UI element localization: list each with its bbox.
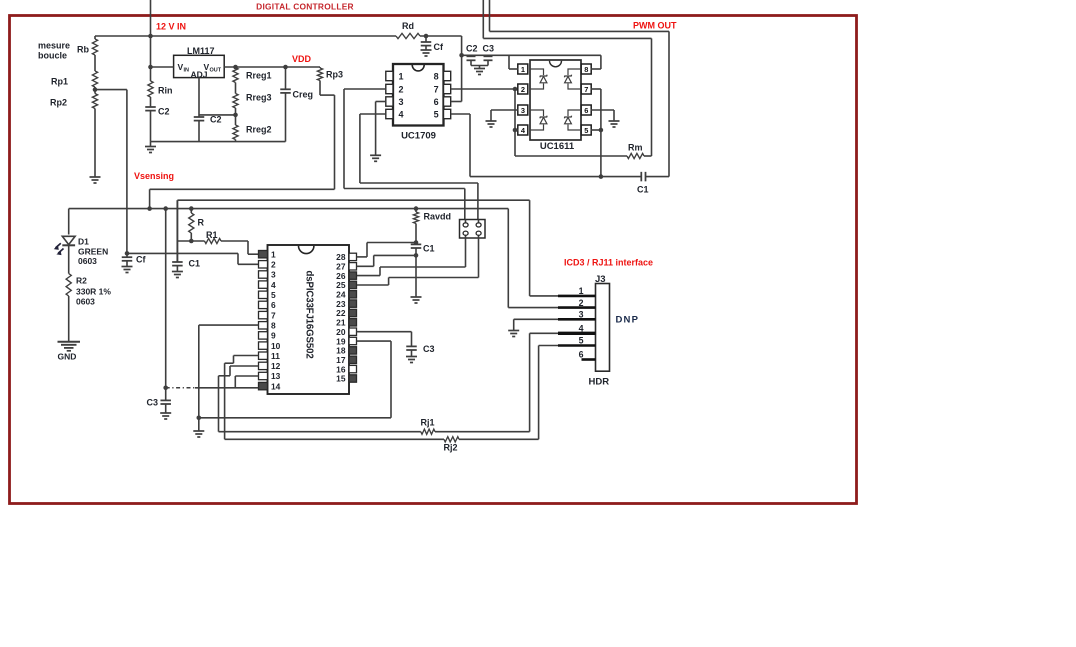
diode UC1611 lower-left bbox=[530, 110, 547, 130]
svg-text:R2: R2 bbox=[76, 276, 87, 286]
regulator U-LM117 bbox=[174, 46, 225, 80]
wire 12V rail left bbox=[95, 35, 396, 37]
wire UC1611 pin7 right bbox=[591, 89, 601, 177]
ground Rp2 bbox=[90, 177, 101, 183]
svg-text:11: 11 bbox=[271, 351, 280, 361]
wire bus pin2-connector bbox=[344, 189, 465, 220]
wire Rb-Rp1 bbox=[94, 55, 96, 71]
svg-text:6: 6 bbox=[579, 350, 584, 360]
pin J3-3 bar bbox=[558, 310, 596, 320]
svg-text:4: 4 bbox=[271, 280, 276, 290]
svg-text:OUT: OUT bbox=[210, 68, 222, 74]
node R bottom bbox=[189, 239, 194, 244]
wire LED-R2 bbox=[68, 245, 70, 274]
svg-text:7: 7 bbox=[434, 84, 439, 94]
pin J3-4 bar bbox=[558, 324, 596, 334]
connector JP 2x2 bbox=[460, 220, 486, 239]
svg-text:Rp2: Rp2 bbox=[50, 98, 67, 108]
wire C2C3 rail bbox=[459, 53, 601, 58]
diode UC1611 upper-left bbox=[530, 69, 547, 89]
capacitor C3 right bbox=[406, 344, 434, 357]
svg-text:Ravdd: Ravdd bbox=[424, 212, 452, 222]
svg-text:9: 9 bbox=[271, 331, 276, 341]
label ICD3 / RJ11 interface bbox=[564, 258, 653, 268]
capacitor C1 avdd bbox=[411, 244, 435, 254]
pin J3-5 bar bbox=[558, 336, 596, 346]
resistor Rp1 bbox=[51, 71, 98, 87]
label mesure boucle bbox=[38, 41, 70, 61]
svg-text:8: 8 bbox=[271, 320, 276, 330]
wire LED top bbox=[68, 209, 70, 235]
resistor Rreg2 bbox=[233, 125, 272, 142]
svg-text:Cf: Cf bbox=[136, 255, 146, 265]
svg-text:Rp3: Rp3 bbox=[326, 70, 343, 80]
svg-text:R1: R1 bbox=[206, 230, 218, 240]
ground UC1611 pin6 bbox=[609, 121, 620, 127]
svg-text:5: 5 bbox=[584, 126, 588, 135]
title DIGITAL CONTROLLER bbox=[256, 2, 354, 12]
svg-text:3: 3 bbox=[579, 310, 584, 320]
node C3 tap junction bbox=[163, 386, 168, 391]
resistor Rb bbox=[77, 39, 98, 55]
svg-text:13: 13 bbox=[271, 371, 281, 381]
capacitor C3 pair bbox=[484, 55, 493, 65]
svg-text:Rj1: Rj1 bbox=[421, 418, 435, 428]
svg-text:8: 8 bbox=[434, 71, 439, 81]
node Creg top bbox=[283, 65, 288, 70]
wire PIC pin14 solid bbox=[195, 387, 259, 389]
svg-text:14: 14 bbox=[271, 381, 281, 391]
frame border bbox=[10, 16, 857, 504]
svg-text:4: 4 bbox=[579, 324, 584, 334]
microcontroller U-dsPIC33FJ16GS502 bbox=[259, 245, 357, 394]
wire PIC pin28 bbox=[357, 243, 417, 257]
node pin8 gnd junction bbox=[197, 416, 202, 421]
wire ADJ to Rreg junction bbox=[199, 114, 236, 116]
svg-text:5: 5 bbox=[434, 109, 439, 119]
ground UC1611 pin3 bbox=[486, 121, 497, 127]
capacitor Creg bbox=[280, 67, 313, 142]
svg-text:Rm: Rm bbox=[628, 143, 643, 153]
svg-text:3: 3 bbox=[271, 270, 276, 280]
svg-text:PWM OUT: PWM OUT bbox=[633, 21, 677, 31]
svg-text:Vsensing: Vsensing bbox=[134, 171, 174, 181]
wire ground rail bbox=[151, 141, 286, 143]
svg-text:Rd: Rd bbox=[402, 21, 414, 31]
wire R2 bottom bbox=[68, 296, 70, 342]
resistor Rreg3 bbox=[233, 93, 272, 109]
wire bus pin4-connector bbox=[360, 183, 478, 220]
wire bus line4 bbox=[177, 199, 529, 201]
svg-text:3: 3 bbox=[521, 106, 525, 115]
node Vsense-Ravdd bbox=[414, 206, 419, 211]
node UC1611 pin4 junction bbox=[513, 128, 519, 133]
resistor Rp3 bbox=[317, 67, 343, 81]
pin J3-1 bar bbox=[558, 286, 596, 296]
connector J3 body bbox=[589, 274, 640, 388]
capacitor C2 input bbox=[145, 97, 169, 142]
svg-text:C1: C1 bbox=[189, 259, 201, 269]
svg-text:2: 2 bbox=[271, 260, 276, 270]
wire Vsensing rail bbox=[69, 208, 509, 210]
svg-text:Rreg3: Rreg3 bbox=[246, 93, 272, 103]
label Vsensing bbox=[134, 171, 174, 181]
svg-text:1: 1 bbox=[271, 249, 276, 259]
wire J3 pin4 stub bbox=[530, 332, 558, 334]
wire ground net bottom bbox=[199, 417, 391, 419]
wire PIC pin14 dashed bbox=[166, 387, 195, 389]
svg-text:DNP: DNP bbox=[616, 315, 640, 326]
svg-text:C3: C3 bbox=[147, 398, 159, 408]
svg-text:5: 5 bbox=[271, 290, 276, 300]
op-amp driver U-UC1709 bbox=[386, 64, 451, 142]
svg-text:5: 5 bbox=[579, 336, 584, 346]
node Cf junction bbox=[424, 34, 429, 39]
node C1 top bbox=[414, 240, 419, 245]
svg-text:Rb: Rb bbox=[77, 45, 89, 55]
wire UC1709 pin3 bbox=[376, 102, 386, 156]
wire UC1611 pin2-pin4 vertical bbox=[514, 89, 516, 156]
svg-text:0603: 0603 bbox=[78, 256, 97, 266]
svg-text:8: 8 bbox=[584, 65, 588, 74]
wire PIC pin19 loop bbox=[357, 341, 392, 418]
node Vin junction bbox=[148, 65, 153, 70]
svg-text:GND: GND bbox=[58, 352, 77, 362]
svg-text:6: 6 bbox=[271, 300, 276, 310]
wire Vin bbox=[151, 66, 174, 68]
svg-text:Rj2: Rj2 bbox=[444, 443, 458, 453]
ground C2C3 bbox=[474, 69, 485, 75]
capacitor C1 pwm bbox=[637, 172, 649, 195]
svg-text:10: 10 bbox=[271, 341, 281, 351]
svg-text:J3: J3 bbox=[595, 274, 606, 285]
svg-text:7: 7 bbox=[584, 85, 588, 94]
wire 12V rail right bbox=[420, 35, 462, 37]
wire UC1611 pin5 stub bbox=[591, 128, 604, 133]
label VDD bbox=[292, 54, 312, 64]
wire C1 ground bbox=[415, 248, 417, 297]
node Rreg junction bbox=[233, 108, 238, 125]
svg-text:DIGITAL CONTROLLER: DIGITAL CONTROLLER bbox=[256, 2, 354, 12]
wire UC1709 pin4 bbox=[360, 114, 386, 183]
ground Cf top bbox=[421, 50, 432, 56]
wire UC1709 pin2 left bbox=[344, 89, 386, 189]
svg-text:LM117: LM117 bbox=[187, 46, 215, 56]
svg-text:ICD3 / RJ11 interface: ICD3 / RJ11 interface bbox=[564, 258, 653, 268]
svg-text:6: 6 bbox=[434, 97, 439, 107]
wire J3 pin3 gnd bbox=[514, 319, 558, 330]
wire PIC pin12 bbox=[219, 366, 259, 432]
wire UC1709 pin6 bbox=[451, 36, 462, 102]
resistor Rd bbox=[396, 21, 420, 39]
node UC1611 pin2 junction bbox=[513, 87, 518, 92]
svg-text:C2: C2 bbox=[158, 107, 170, 117]
ground C3 bottom-left bbox=[160, 413, 171, 419]
svg-text:15: 15 bbox=[336, 374, 346, 384]
svg-text:Creg: Creg bbox=[293, 90, 314, 100]
resistor R bbox=[189, 209, 205, 241]
wire Rp1-Rp2 bbox=[94, 87, 96, 94]
svg-text:GREEN: GREEN bbox=[78, 247, 108, 257]
wire UC1611 pin6 gnd bbox=[591, 110, 614, 121]
label 12 V IN bbox=[156, 22, 186, 32]
svg-text:C3: C3 bbox=[423, 344, 435, 354]
svg-text:C2: C2 bbox=[466, 44, 478, 54]
wire R1 node vertical bbox=[176, 200, 178, 262]
svg-text:12 V IN: 12 V IN bbox=[156, 22, 186, 32]
ground Cf left bbox=[122, 267, 133, 273]
label C2 C3 bbox=[466, 44, 494, 54]
wire PIC pin8 gnd bbox=[199, 325, 259, 431]
svg-text:6: 6 bbox=[584, 106, 588, 115]
wire VDD rail bbox=[224, 66, 320, 68]
resistor Rm bbox=[515, 143, 652, 159]
node Rp1/Rp2 junction bbox=[93, 87, 98, 92]
svg-text:Rreg1: Rreg1 bbox=[246, 71, 272, 81]
svg-text:2: 2 bbox=[399, 84, 404, 94]
ground C1 avdd bbox=[411, 297, 422, 303]
wire Rb top bbox=[94, 36, 96, 39]
wire PWM inner top bbox=[483, 0, 651, 156]
ground J3 pin3 bbox=[508, 331, 519, 337]
svg-text:1: 1 bbox=[579, 286, 584, 296]
wire Vsense tap bbox=[95, 90, 127, 254]
wire PIC pin11 bbox=[225, 356, 259, 440]
wire PWM outer top bbox=[490, 0, 670, 177]
capacitor Cf top bbox=[421, 36, 444, 52]
label PWM OUT bbox=[633, 21, 677, 31]
svg-text:0603: 0603 bbox=[76, 297, 95, 307]
driver U-UC1611 bbox=[518, 60, 591, 152]
wire UC1611 pin1 up bbox=[509, 55, 518, 69]
svg-text:UC1709: UC1709 bbox=[401, 131, 436, 142]
pin J3-6 bar bbox=[579, 350, 596, 360]
diode UC1611 upper-right bbox=[564, 69, 581, 89]
resistor Rreg1 bbox=[233, 67, 272, 83]
svg-text:C1: C1 bbox=[637, 185, 649, 195]
svg-text:2: 2 bbox=[579, 298, 584, 308]
pin J3-2 bar bbox=[558, 298, 596, 308]
svg-text:1: 1 bbox=[521, 65, 525, 74]
resistor R1 bbox=[177, 230, 258, 254]
node Vsense-C3tap bbox=[163, 206, 168, 211]
wire bus line5 down bbox=[508, 209, 558, 308]
diode UC1611 lower-right bbox=[564, 110, 581, 130]
wire PIC pin27 bbox=[357, 255, 417, 266]
wire UC1709 pin7 to UC1611 pin2 bbox=[451, 88, 519, 90]
wire 12V input vertical bbox=[150, 0, 152, 67]
svg-text:3: 3 bbox=[399, 97, 404, 107]
node C1 bottom bbox=[414, 253, 419, 258]
svg-text:HDR: HDR bbox=[589, 377, 610, 388]
wire C2C3 join bbox=[471, 66, 488, 69]
svg-text:7: 7 bbox=[271, 310, 276, 320]
wire connector BR bbox=[357, 238, 479, 285]
wire UC1611 pin3 gnd bbox=[491, 110, 518, 121]
resistor Ravdd bbox=[413, 209, 451, 224]
svg-text:C1: C1 bbox=[423, 244, 435, 254]
node Rreg1 top bbox=[233, 65, 238, 70]
wire J3 pin5 stub bbox=[539, 345, 558, 347]
resistor Rj2 bbox=[225, 346, 539, 453]
wire Ravdd-C1 bbox=[415, 224, 417, 245]
svg-text:C3: C3 bbox=[483, 44, 495, 54]
svg-text:1: 1 bbox=[399, 71, 404, 81]
ground GND main bbox=[58, 342, 81, 362]
wire V3 tap vertical bbox=[165, 209, 167, 401]
capacitor C1 left bbox=[172, 259, 200, 272]
wire connector BL bbox=[357, 238, 466, 276]
svg-text:12: 12 bbox=[271, 361, 281, 371]
wire UC1611 pin8 up bbox=[591, 55, 601, 69]
svg-text:4: 4 bbox=[399, 109, 404, 119]
ground C1 left bbox=[172, 272, 183, 278]
svg-text:UC1611: UC1611 bbox=[540, 141, 575, 152]
wire PIC pin13 bbox=[235, 376, 258, 388]
svg-text:2: 2 bbox=[521, 85, 525, 94]
wire Rp3 down bbox=[320, 81, 335, 190]
svg-text:R: R bbox=[198, 218, 205, 228]
wire ADJ down bbox=[198, 78, 200, 117]
node Vsense-R bbox=[189, 206, 194, 211]
svg-text:IN: IN bbox=[184, 68, 190, 74]
node 12V rail junction bbox=[148, 34, 153, 39]
svg-text:VDD: VDD bbox=[292, 54, 312, 64]
wire Rp3 to Vsensing bbox=[150, 189, 335, 208]
svg-text:boucle: boucle bbox=[38, 51, 67, 61]
capacitor C3 bottom-left bbox=[147, 398, 171, 414]
wire PWM bottom bbox=[470, 174, 669, 179]
svg-text:C2: C2 bbox=[210, 115, 222, 125]
LED D1 bbox=[54, 236, 108, 266]
ground PIC pin8 bbox=[193, 431, 204, 437]
svg-text:Rp1: Rp1 bbox=[51, 77, 68, 87]
capacitor Cf left bbox=[122, 253, 147, 266]
ground LM117 rail bbox=[145, 142, 156, 153]
wire Rp2 bottom bbox=[94, 109, 96, 178]
svg-text:Rin: Rin bbox=[158, 86, 173, 96]
svg-text:dsPIC33FJ16GS502: dsPIC33FJ16GS502 bbox=[304, 271, 315, 359]
capacitor C2 pair bbox=[467, 55, 476, 65]
ground C3 right bbox=[406, 357, 417, 363]
resistor Rin bbox=[148, 67, 173, 97]
wire Rreg1-Rreg3 bbox=[235, 83, 237, 94]
svg-text:D1: D1 bbox=[78, 237, 89, 247]
wire Vsense tap to pin2 line bbox=[125, 251, 259, 264]
resistor Rj1 bbox=[219, 333, 530, 434]
resistor R2 bbox=[66, 274, 111, 307]
node Vsense-Rp3 bbox=[147, 206, 152, 211]
svg-text:Rreg2: Rreg2 bbox=[246, 125, 272, 135]
ground UC1709 pin3 bbox=[370, 155, 381, 161]
wire PIC pin20 to C3 bbox=[357, 332, 412, 347]
svg-text:mesure: mesure bbox=[38, 41, 70, 51]
wire bus line4 down bbox=[530, 200, 558, 296]
capacitor C2 adj bbox=[194, 115, 222, 142]
wire UC1709 pin5 bbox=[451, 114, 470, 177]
svg-text:330R 1%: 330R 1% bbox=[76, 287, 111, 297]
svg-text:Cf: Cf bbox=[434, 42, 444, 52]
resistor Rp2 bbox=[50, 94, 98, 109]
